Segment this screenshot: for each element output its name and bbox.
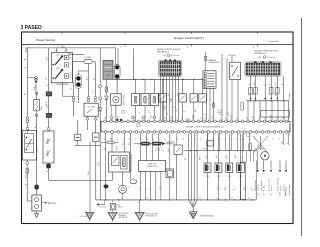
column number ticks: [61, 44, 63, 46]
ECM bottom pin row: [104, 131, 288, 134]
svg-text:B: B: [177, 139, 179, 140]
svg-text:W-B: W-B: [25, 175, 27, 178]
resistor element: [134, 96, 136, 103]
svg-text:B: B: [249, 84, 251, 85]
connector grouping outline right: [260, 111, 289, 117]
svg-text:L: L: [259, 118, 261, 119]
svg-text:ENGINE GROUND: ENGINE GROUND: [200, 215, 214, 217]
diagram outer frame: [22, 32, 294, 224]
diode on feed wire: [99, 108, 102, 111]
svg-text:Y: Y: [207, 139, 209, 140]
diode below EFI relay: [105, 96, 109, 100]
wire down to bottom bus: [99, 111, 101, 200]
wire: [99, 100, 101, 108]
connector below main relay: [26, 162, 29, 165]
svg-text:L: L: [132, 118, 134, 119]
svg-text:G-W: G-W: [231, 115, 233, 119]
svg-text:Power Source: Power Source: [36, 38, 56, 42]
svg-text:L: L: [264, 84, 266, 85]
ground left with box: [112, 200, 114, 203]
wire: [144, 106, 146, 122]
check engine lamp circle: [119, 185, 127, 193]
svg-text:No.2: No.2: [216, 155, 218, 158]
svg-text:B-Y: B-Y: [47, 57, 49, 60]
ignition switch SW box: [52, 52, 73, 83]
svg-text:(ENGINE ECU): (ENGINE ECU): [255, 53, 267, 55]
wire down from alternator: [48, 168, 50, 180]
wire: [36, 111, 38, 114]
mid horizontal wire: [184, 150, 259, 152]
connector: [87, 96, 90, 99]
svg-text:B: B: [47, 171, 49, 172]
svg-text:B: B: [249, 139, 251, 140]
connector: [142, 116, 145, 119]
injector #30: [226, 163, 233, 172]
small relay near band: [174, 145, 182, 155]
svg-text:B: B: [242, 157, 244, 158]
svg-text:PRESSURE SW: PRESSURE SW: [146, 215, 157, 217]
to cruise control arrow: [99, 204, 105, 206]
svg-text:NOISE FILTER: NOISE FILTER: [254, 149, 265, 151]
svg-text:2-0: 2-0: [121, 198, 123, 200]
wire below injector: [217, 172, 219, 200]
svg-text:P-L: P-L: [145, 143, 147, 146]
svg-text:To DLC3: To DLC3: [283, 185, 285, 191]
ground (fuel tank): [135, 212, 144, 220]
wire below injector: [240, 172, 242, 200]
wire below relay: [112, 172, 114, 180]
wire: [88, 64, 90, 97]
inline connector dark 2: [46, 113, 52, 117]
two-pin dark connector (battery junction): [76, 75, 82, 89]
wire down right of power section: [95, 142, 97, 200]
wire: [99, 88, 101, 97]
svg-text:L-Y: L-Y: [167, 113, 169, 115]
svg-text:ENGINE CONTROL MODULE (ENGINE: ENGINE CONTROL MODULE (ENGINE ECU): [186, 127, 224, 129]
inline connector dark: [46, 92, 52, 96]
svg-text:B: B: [47, 85, 49, 86]
resistor element: [153, 96, 155, 103]
wire to DLC1: [205, 52, 207, 71]
svg-text:CONNECTOR 2: CONNECTOR 2: [146, 166, 158, 168]
wire: [144, 79, 146, 93]
EFI main relay 2 (switch box): [230, 62, 241, 79]
wire below DLC2: [155, 172, 157, 200]
wire to main relay box: [27, 123, 29, 133]
inline connector labels below B: [249, 88, 253, 95]
svg-text:B-L: B-L: [94, 78, 96, 81]
ECM connector B (E10) pin block: [245, 61, 281, 76]
svg-text:B: B: [237, 118, 239, 119]
ignition switch contacts: [52, 64, 54, 66]
battery: [32, 195, 41, 211]
svg-text:L: L: [159, 139, 161, 140]
svg-text:W-B: W-B: [282, 141, 284, 144]
long wire check connector: [221, 54, 223, 121]
wire: [202, 102, 204, 121]
output wire: [285, 160, 287, 169]
header separator line: [22, 43, 294, 45]
svg-text:B: B: [213, 139, 215, 140]
engine ground triangle: [189, 212, 197, 219]
wire from ignition switch to fusible link row: [69, 54, 84, 56]
wire into ignition switch 2: [65, 48, 67, 52]
wire below DLC2: [150, 172, 152, 200]
feed wire left of ECM band: [99, 48, 101, 85]
svg-text:4-2: 4-2: [137, 202, 139, 204]
connector: [132, 116, 135, 119]
svg-text:4-0: 4-0: [248, 198, 250, 200]
svg-text:Y: Y: [243, 139, 245, 140]
resistor box row: [132, 94, 140, 106]
arrow: [255, 98, 257, 100]
wire: [162, 79, 164, 94]
ECM long box (engine control module band): [101, 121, 290, 132]
svg-text:4-0: 4-0: [199, 198, 201, 200]
alternator box with diodes: [43, 131, 54, 163]
svg-text:No.4: No.4: [235, 155, 237, 158]
svg-text:L: L: [231, 139, 233, 140]
wire: [105, 100, 107, 122]
svg-text:Y: Y: [135, 139, 137, 140]
arrow: [250, 98, 252, 100]
resistor element: [144, 96, 146, 103]
small component above mid wire: [207, 141, 213, 146]
engine ground converging wires: [188, 133, 190, 200]
circuit opening relay box: [109, 152, 130, 172]
svg-text:CONNECTOR 1: CONNECTOR 1: [208, 62, 220, 64]
small pill left of noise filter: [249, 143, 252, 150]
connector above alternator: [47, 127, 50, 130]
relay coil: [123, 158, 126, 167]
svg-text:4-0: 4-0: [216, 198, 218, 200]
bus riser right: [255, 160, 257, 200]
svg-text:(ENGINE ECU): (ENGINE ECU): [157, 51, 169, 53]
EFI relay coil pill: [114, 65, 120, 79]
svg-text:L-B: L-B: [263, 193, 265, 195]
starter relay box: [84, 103, 98, 116]
wire to injector: [207, 133, 209, 163]
ECM top pin row: [104, 120, 288, 123]
svg-text:B: B: [204, 114, 206, 115]
relay row right of resistors: [159, 94, 167, 102]
svg-text:L: L: [221, 118, 223, 119]
wire: [73, 61, 85, 63]
wire below circuit opening relay: [115, 105, 117, 121]
wire to starter relay: [48, 96, 50, 113]
wire above DLC2: [146, 133, 148, 160]
noise filter: [261, 152, 269, 160]
dark connector above battery: [35, 185, 39, 190]
wires below ECM band mid: [130, 133, 132, 179]
wire: [73, 102, 75, 116]
connector: [153, 116, 156, 119]
wire to check lamp: [122, 172, 124, 185]
vertical pair box right: [240, 162, 245, 200]
fuel pump feed wire with fuse: [101, 142, 107, 144]
wire: [241, 133, 243, 162]
svg-text:B-W: B-W: [98, 161, 100, 165]
wire below DLC2: [145, 172, 147, 200]
wire: [122, 193, 124, 200]
terminal connector: [34, 77, 38, 81]
svg-text:P-B: P-B: [151, 142, 153, 145]
svg-text:E10: E10: [258, 57, 261, 59]
connector on battery feed: [26, 117, 29, 120]
arrow to combination meter: [160, 142, 162, 144]
svg-text:AM2: AM2: [40, 106, 43, 110]
wire: [77, 71, 79, 75]
wire to battery: [26, 174, 28, 201]
svg-text:B: B: [141, 139, 143, 140]
fusible link FL MAIN: [84, 59, 92, 63]
ignition switch contact brackets: [64, 55, 68, 60]
bottom bus wire: [96, 199, 256, 201]
svg-text:W-L: W-L: [87, 77, 89, 80]
fuse below main relay: [26, 168, 28, 174]
connector: [72, 96, 75, 99]
svg-text:E1: E1: [150, 188, 152, 190]
inline component on DLC1 wire: [205, 57, 207, 61]
ground (body): [108, 212, 117, 220]
wire: [111, 106, 113, 116]
svg-text:W-B: W-B: [218, 187, 220, 190]
svg-text:B-W: B-W: [46, 101, 48, 105]
wire: [150, 143, 153, 145]
wires from ECM connector B: [250, 76, 252, 101]
svg-text:G-W: G-W: [271, 115, 273, 119]
supply wires to EFI relay: [115, 48, 117, 65]
svg-text:B-Y: B-Y: [257, 193, 259, 196]
svg-text:L: L: [267, 139, 269, 140]
drops from bus to ECM pin row: [247, 101, 249, 122]
wire: [202, 79, 204, 94]
DLC2 (data link connector 2): [139, 161, 166, 172]
fuse AM2 block: [34, 99, 40, 111]
connector: [35, 92, 38, 95]
wire above DLC2: [158, 133, 160, 160]
svg-text:B: B: [174, 107, 176, 108]
injector #40: [237, 163, 245, 172]
wire below injector: [207, 172, 209, 200]
connector on feed wire: [99, 85, 102, 88]
svg-text:B: B: [104, 139, 106, 140]
long wire 2: [226, 58, 228, 121]
wire: [36, 95, 38, 100]
svg-text:W-B: W-B: [275, 93, 277, 96]
wire above relay: [231, 56, 233, 62]
wire above DLC2: [140, 133, 142, 160]
wire: [162, 102, 164, 121]
svg-text:No.3: No.3: [226, 155, 228, 158]
output wire: [279, 160, 281, 169]
fuse EFI: [105, 87, 108, 93]
output wire: [263, 160, 265, 169]
wire: [176, 133, 178, 145]
oval component: [130, 179, 137, 184]
svg-text:R-B: R-B: [123, 142, 125, 145]
arrow: [270, 98, 272, 100]
wire: [48, 118, 50, 128]
wire: [135, 106, 137, 122]
arrow: [264, 98, 266, 100]
wire: [193, 79, 195, 94]
wire to injector: [217, 133, 219, 163]
svg-text:V: V: [157, 144, 159, 145]
svg-text:G-B: G-B: [168, 93, 170, 96]
arrow: [276, 98, 278, 100]
connector above main relay: [26, 127, 29, 130]
svg-text:L-Y: L-Y: [177, 94, 179, 96]
wires below DLC1: [206, 87, 208, 121]
svg-text:P: P: [139, 144, 141, 145]
data link connector 1 box: [203, 71, 216, 89]
svg-text:1 : Continued: 1 : Continued: [267, 40, 278, 43]
wire stub: [87, 116, 89, 117]
wire: [77, 89, 79, 103]
wire column 2 drop: [133, 48, 135, 79]
main relay assembly box: [23, 131, 37, 161]
svg-text:Engine Control (ECT): Engine Control (ECT): [174, 36, 204, 40]
wires below mid-wire right: [246, 151, 248, 162]
wire above DLC2: [152, 133, 154, 160]
svg-text:4-0: 4-0: [231, 198, 233, 200]
wire: [182, 102, 184, 121]
svg-text:IG1: IG1: [69, 58, 72, 60]
tiny inline component near DLC wires: [212, 103, 214, 108]
EFI main relay (shaded box): [103, 60, 113, 79]
wire into ignition switch: [56, 48, 58, 52]
wire from ignition switch ST terminal down: [62, 82, 64, 96]
ECM connector A (E9) pin block: [159, 60, 182, 77]
wire: [77, 140, 79, 145]
svg-text:B: B: [251, 189, 253, 190]
wire from EFI relay down: [116, 79, 118, 94]
connector: [94, 96, 97, 99]
circuit opening relay (box with circle): [111, 94, 122, 105]
wire below relay: [237, 80, 239, 122]
svg-text:IGNITION SW: IGNITION SW: [56, 84, 68, 86]
svg-text:R-B: R-B: [276, 82, 278, 85]
wire to battery: [36, 117, 38, 195]
wire: [153, 79, 155, 93]
wire: [73, 82, 75, 96]
svg-text:B: B: [201, 118, 203, 119]
short stubs far right below band: [283, 133, 285, 145]
wire: [26, 165, 28, 168]
wire: [182, 79, 184, 94]
capacitor/resistor on wire (right): [93, 133, 99, 142]
svg-text:B: B: [277, 118, 279, 119]
svg-text:R-L: R-L: [271, 193, 273, 196]
wires below band right-mid: [207, 133, 209, 150]
wires below ECM band left: [105, 133, 107, 200]
fuse below EFI relay: [105, 80, 107, 87]
wire below DLC2: [160, 172, 162, 200]
wire: [94, 62, 96, 97]
svg-text:G-W: G-W: [151, 115, 153, 119]
svg-text:1 1B: 1 1B: [65, 50, 68, 52]
wire to body ground: [89, 142, 91, 213]
svg-text:W-B: W-B: [225, 187, 227, 190]
wire to injector: [228, 133, 230, 163]
output wire: [257, 160, 259, 169]
svg-text:L: L: [123, 139, 125, 140]
ground (cowl): [86, 212, 94, 219]
svg-text:B: B: [77, 96, 79, 97]
wire ignition feed column: [48, 48, 50, 92]
inline dark connector pair mid: [141, 142, 150, 146]
wire below injector: [228, 172, 230, 200]
shield crossing wires: [253, 136, 268, 153]
svg-text:Y: Y: [171, 139, 173, 140]
wire: [169, 133, 171, 169]
svg-text:To Cowl Wire: To Cowl Wire: [80, 216, 89, 218]
svg-text:B: B: [287, 143, 289, 144]
svg-text:3 PASEO: 3 PASEO: [21, 25, 42, 31]
svg-text:LG-B: LG-B: [168, 148, 170, 152]
small dark oval: [104, 184, 109, 188]
wire below DLC2: [140, 172, 142, 200]
wire: [153, 106, 155, 122]
junction code boxes: [122, 111, 125, 114]
connector on feed wire 2: [99, 97, 102, 100]
svg-text:CIRCUIT OPEN: CIRCUIT OPEN: [124, 95, 126, 106]
twin box pair right of DLC2: [166, 169, 174, 178]
wire fuse AM2 column: [35, 84, 37, 92]
svg-text:No.1: No.1: [206, 155, 208, 158]
svg-text:BATTERY: BATTERY: [48, 202, 57, 205]
wire: [92, 61, 95, 63]
svg-text:4-0: 4-0: [172, 198, 174, 200]
scanned page right edge: [301, 18, 303, 236]
junction wire horizontal: [75, 144, 101, 146]
capacitor/resistor on wire (left): [75, 134, 81, 140]
svg-text:TE1: TE1: [160, 187, 162, 190]
wires from ECM connector A: [160, 76, 162, 121]
wire: [26, 160, 28, 162]
svg-text:TE2: TE2: [140, 187, 142, 190]
wire: [48, 162, 50, 165]
dark connector below alternator: [46, 164, 50, 169]
output wire: [270, 160, 272, 169]
connector: [35, 114, 38, 117]
wires relay to lower components: [77, 120, 79, 134]
svg-text:2-0: 2-0: [146, 198, 148, 200]
engine harness rail: [112, 78, 202, 80]
svg-text:B: B: [159, 118, 161, 119]
long wire to engine section ground: [49, 179, 113, 181]
svg-text:E9: E9: [164, 55, 166, 57]
svg-text:B: B: [234, 189, 236, 190]
wire below relay 2: [231, 80, 233, 122]
junction dots above ECM band: [116, 119, 118, 121]
svg-text:G-W: G-W: [193, 115, 195, 119]
svg-text:ST1: ST1: [69, 76, 72, 78]
wire: [193, 102, 195, 121]
bus under connector B: [246, 100, 289, 102]
svg-text:Y: Y: [279, 139, 281, 140]
power source top supply wire: [26, 47, 116, 49]
injector #10: [204, 163, 211, 172]
svg-text:W-L: W-L: [195, 109, 197, 112]
branch to ammeter terminal: [28, 76, 37, 78]
svg-text:BR-B: BR-B: [200, 156, 202, 160]
wire battery feed left column: [27, 48, 29, 117]
svg-text:L: L: [177, 118, 179, 119]
injector #20: [215, 163, 222, 172]
wire: [176, 155, 178, 200]
